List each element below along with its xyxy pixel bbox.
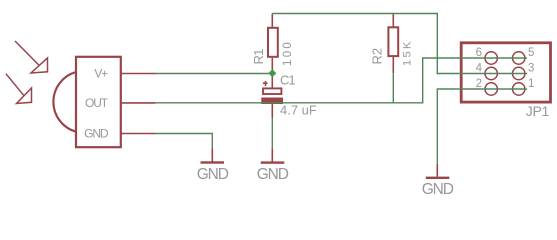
sensor pin OUT xyxy=(85,96,155,110)
sensor pin GND xyxy=(84,126,155,140)
resistor R2 xyxy=(388,14,398,74)
wire top rail: R1 top to R2 top to JP1 row 2 xyxy=(272,14,527,74)
wire JP1 row 3 to GND xyxy=(437,89,527,164)
svg-text:GND: GND xyxy=(84,126,109,140)
light arrow 2 xyxy=(6,74,32,104)
svg-text:2: 2 xyxy=(476,78,482,90)
svg-text:R1: R1 xyxy=(251,49,266,65)
wire V+ net: sensor V+ to junction xyxy=(155,73,269,75)
JP1 pin 2 xyxy=(485,83,497,95)
svg-text:R2: R2 xyxy=(369,48,384,65)
svg-text:4.7 uF: 4.7 uF xyxy=(280,103,317,118)
light arrow 1 xyxy=(15,41,48,73)
svg-text:3: 3 xyxy=(528,62,534,74)
svg-text:GND: GND xyxy=(197,166,229,183)
wire C1 bottom to ground xyxy=(271,118,273,149)
svg-text:OUT: OUT xyxy=(85,96,109,110)
resistor R1 xyxy=(268,14,278,74)
svg-text:1: 1 xyxy=(528,78,534,90)
svg-text:5: 5 xyxy=(528,47,534,59)
sensor pin V+ xyxy=(94,66,155,80)
JP1 pin 6 xyxy=(485,52,497,64)
wire sensor GND to ground xyxy=(155,134,212,149)
svg-text:100: 100 xyxy=(282,40,294,66)
JP1 pin 3 xyxy=(513,67,525,79)
capacitor C1 xyxy=(261,74,283,118)
svg-text:GND: GND xyxy=(422,181,454,198)
JP1 pin 1 xyxy=(513,83,525,95)
wire R2 bottom to OUT net xyxy=(392,73,394,103)
JP1 pin 5 xyxy=(513,52,525,64)
junction node V+ xyxy=(268,69,276,77)
svg-text:JP1: JP1 xyxy=(526,103,550,119)
connector JP1 outline xyxy=(461,43,550,102)
wire OUT net: sensor OUT right, up, to JP1 row 1 xyxy=(155,58,527,103)
svg-text:C1: C1 xyxy=(280,73,295,88)
svg-text:V+: V+ xyxy=(94,66,108,80)
ground symbol 3 (JP1) xyxy=(422,164,454,198)
sensor U1 body xyxy=(53,57,120,147)
svg-text:GND: GND xyxy=(257,166,289,183)
JP1 pin 4 xyxy=(485,67,497,79)
svg-text:15K: 15K xyxy=(402,39,414,66)
ground symbol 2 (C1) xyxy=(257,148,289,183)
ground symbol 1 (sensor) xyxy=(197,148,229,183)
svg-text:6: 6 xyxy=(476,47,482,59)
svg-text:4: 4 xyxy=(476,62,483,74)
